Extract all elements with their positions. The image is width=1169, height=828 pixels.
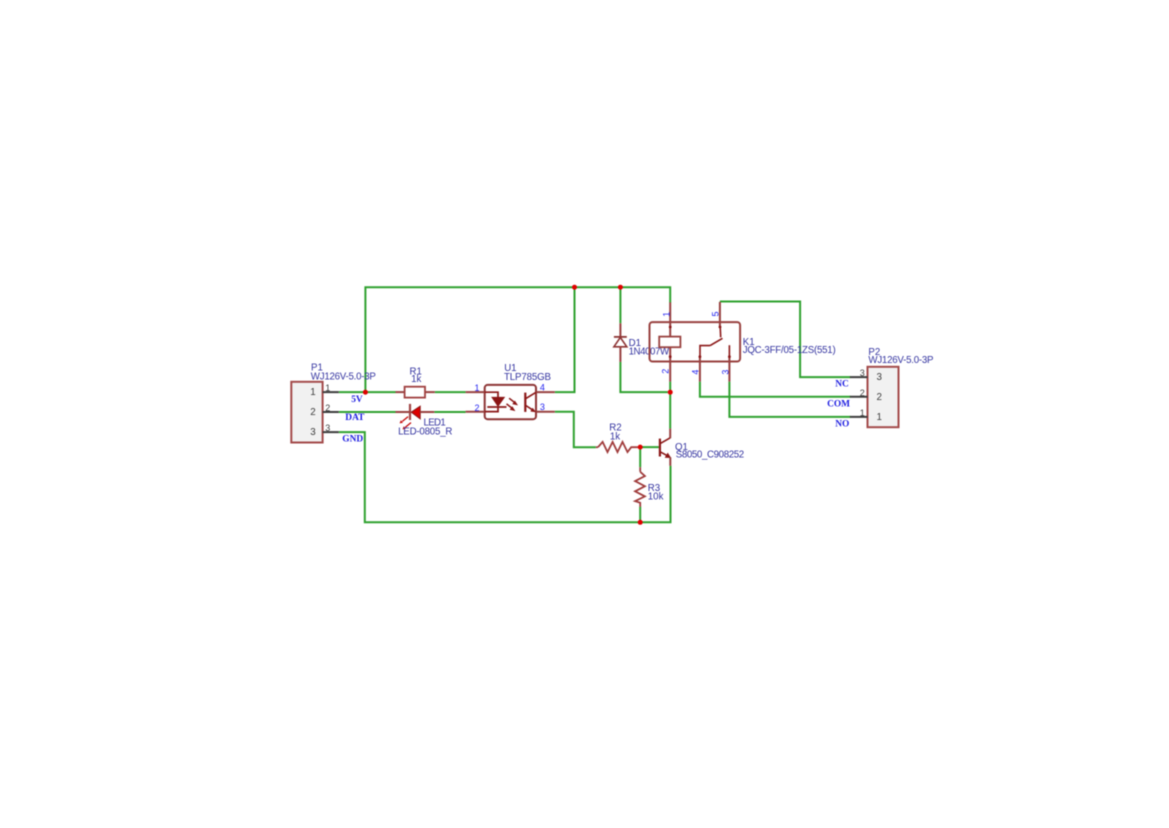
svg-text:3: 3	[310, 427, 316, 438]
wire 5V from P1 pin1 to R1	[339, 391, 396, 393]
svg-text:4: 4	[540, 382, 545, 392]
svg-text:3: 3	[540, 402, 545, 412]
svg-text:1: 1	[474, 383, 479, 393]
pin number 1 of P2	[860, 408, 865, 418]
pin number 1 of K1	[661, 312, 671, 317]
svg-text:GND: GND	[342, 434, 363, 444]
pin number 3 of P2	[860, 368, 865, 378]
wire R1 to U1 pin1	[435, 391, 466, 393]
svg-text:4: 4	[691, 370, 701, 375]
svg-text:3: 3	[720, 370, 730, 375]
pin number 4 of U1	[540, 382, 545, 392]
svg-text:2: 2	[474, 403, 479, 413]
value JQC-3FF/05-1ZS(551) of K1	[743, 345, 836, 356]
svg-text:COM: COM	[827, 400, 850, 410]
designator R1	[410, 367, 422, 378]
pin number 3 of P1	[325, 423, 330, 433]
resistor R1	[396, 387, 435, 398]
transistor Q1	[660, 429, 671, 466]
wire LED1 to U1 pin2	[434, 411, 465, 413]
pin number 4 of K1	[691, 370, 701, 375]
wire U1 pin4 to top rail	[555, 287, 575, 392]
value S8050_C908252 of Q1	[676, 450, 745, 461]
resistor R2	[596, 442, 638, 452]
svg-text:1: 1	[325, 383, 330, 393]
wire node B to R3 top	[639, 447, 641, 467]
svg-text:1k: 1k	[610, 431, 620, 442]
svg-text:1: 1	[860, 408, 865, 418]
svg-text:2: 2	[877, 392, 882, 403]
wire DAT from P1 pin2 to LED1	[339, 411, 396, 413]
value 1k of R2	[610, 431, 620, 442]
svg-text:NC: NC	[835, 380, 849, 390]
pin number 2 of P1	[325, 403, 330, 413]
svg-text:LED-0805_R: LED-0805_R	[398, 426, 452, 437]
designator P1	[311, 362, 323, 373]
junction node B R2 R3 Q1 base	[638, 445, 643, 450]
wire U1 pin3 to R2	[555, 412, 596, 448]
net label NC	[835, 380, 849, 390]
net label NO	[835, 420, 849, 430]
diode D1	[614, 323, 627, 362]
value WJ126V-5.0-3P of P2	[868, 355, 933, 366]
wire NC from relay pin5 to P2 pin3	[720, 302, 851, 378]
svg-text:WJ126V-5.0-3P: WJ126V-5.0-3P	[311, 372, 376, 383]
pin number 1 of U1	[474, 383, 479, 393]
svg-text:1k: 1k	[411, 374, 421, 385]
connector P2	[850, 367, 899, 427]
pin number 3 of K1	[720, 370, 730, 375]
junction node 5V	[363, 390, 368, 395]
LED LED1	[396, 404, 435, 430]
value 1N4007W of D1	[629, 346, 670, 357]
designator P2	[868, 347, 880, 358]
svg-text:WJ126V-5.0-3P: WJ126V-5.0-3P	[868, 355, 933, 366]
net label COM	[827, 400, 850, 410]
svg-text:3: 3	[860, 368, 865, 378]
svg-text:3: 3	[877, 372, 883, 383]
wire GND from P1 pin3 along bottom rail to Q1 emitter	[339, 432, 671, 522]
designator Q1	[675, 442, 688, 453]
svg-text:DAT: DAT	[345, 413, 365, 423]
svg-text:1: 1	[661, 312, 671, 317]
wire NO from relay pin3 to P2 pin1	[729, 382, 850, 417]
svg-text:5V: 5V	[351, 395, 363, 405]
pin number 5 of K1	[711, 311, 721, 316]
pin number 2 of K1	[661, 369, 671, 374]
pin number 2 of U1	[474, 403, 479, 413]
svg-text:NO: NO	[835, 420, 849, 430]
designator D1	[629, 338, 641, 349]
svg-text:2: 2	[661, 369, 671, 374]
svg-text:5: 5	[711, 311, 721, 316]
pin number 2 of P2	[860, 388, 865, 398]
value 10k of R3	[648, 492, 664, 503]
junction node top rail at D1	[618, 285, 623, 290]
pin number 1 of P1	[325, 383, 330, 393]
wire 5V riser and top rail to relay pin1	[365, 287, 670, 392]
designator LED1	[424, 417, 446, 428]
svg-text:JQC-3FF/05-1ZS(551): JQC-3FF/05-1ZS(551)	[743, 345, 836, 356]
svg-text:2: 2	[860, 388, 865, 398]
svg-text:2: 2	[310, 407, 315, 418]
pin number 3 of U1	[540, 402, 545, 412]
wire top rail to D1 anode top	[619, 287, 621, 323]
svg-text:2: 2	[325, 403, 330, 413]
svg-text:1: 1	[877, 412, 882, 423]
optocoupler U1	[466, 385, 555, 419]
connector P1	[291, 382, 339, 443]
resistor R3	[635, 467, 645, 507]
designator U1	[504, 363, 516, 374]
wire COM from relay pin4 to P2 pin2	[700, 382, 851, 397]
wire R3 bottom to ground rail	[639, 507, 641, 523]
designator K1	[743, 337, 755, 348]
svg-text:1: 1	[310, 387, 315, 398]
designator R3	[648, 483, 660, 494]
svg-text:3: 3	[325, 423, 330, 433]
svg-text:10k: 10k	[648, 492, 664, 503]
wire relay pin2 through node A to Q1 collector	[669, 382, 671, 429]
wire D1 bottom to node A	[620, 362, 667, 392]
junction node R3 ground rail	[638, 520, 643, 525]
value WJ126V-5.0-3P of P1	[311, 372, 376, 383]
junction node top rail at U1 pin4	[572, 285, 577, 290]
junction node A relay pin2 D1 Q1 collector	[668, 390, 673, 395]
net label 5V	[351, 395, 363, 405]
net label GND	[342, 434, 363, 444]
designator R2	[609, 423, 621, 434]
net label DAT	[345, 413, 365, 423]
value TLP785GB of U1	[504, 372, 551, 383]
value LED-0805_R of LED1	[398, 426, 452, 437]
svg-text:TLP785GB: TLP785GB	[504, 372, 551, 383]
relay K1	[650, 302, 741, 382]
value 1k of R1	[411, 374, 421, 385]
svg-text:S8050_C908252: S8050_C908252	[676, 450, 745, 461]
wire R2 to Q1 base	[640, 446, 659, 448]
